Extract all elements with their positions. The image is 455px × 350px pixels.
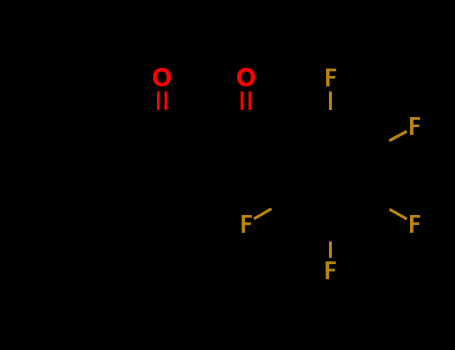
double bond C3=O2 (oxygen-side halves, red) [241,91,244,110]
atom F4 (ring meta fluorine, bottom) [326,261,336,279]
atom F3 (ring para fluorine, lower right) [410,215,420,233]
atom F2 (ring meta fluorine, upper right) [410,117,420,135]
atom F1 (ring ortho fluorine, top) [326,69,336,87]
svg-text:O: O [152,64,171,92]
atom F5 (ring ortho fluorine, lower left) [242,215,252,233]
bond C-F2 (fluorine-side half, gold) [389,131,407,140]
bond C-F3 (fluorine-side half, gold) [390,209,407,219]
svg-text:O: O [236,64,255,92]
bond C-F5 (fluorine-side half, gold) [254,209,271,219]
bond C-F4 (fluorine-side half, gold) [329,241,332,258]
double bond C1=O1 (oxygen-side halves, red) [157,91,160,110]
bond C-F1 (fluorine-side half, gold) [329,91,332,110]
